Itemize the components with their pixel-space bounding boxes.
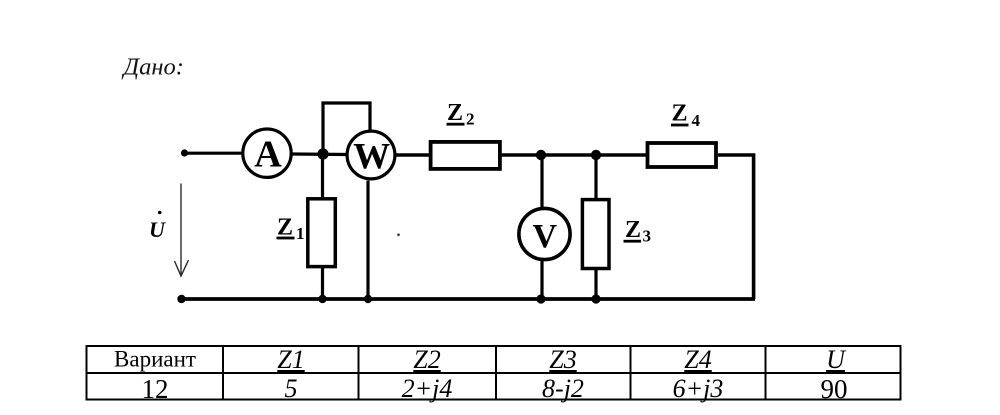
svg-text:Z4: Z4 bbox=[684, 345, 711, 374]
svg-text:12: 12 bbox=[142, 374, 169, 404]
wire: voltmeter to bottom rail bbox=[540, 261, 543, 300]
svg-text:A: A bbox=[254, 133, 282, 175]
node: bottom left terminal bbox=[177, 295, 185, 303]
svg-text:1: 1 bbox=[296, 224, 305, 243]
svg-text:Z3: Z3 bbox=[549, 345, 576, 374]
svg-text:3: 3 bbox=[643, 227, 652, 246]
wire: node to Z3 bbox=[594, 155, 597, 200]
resistor Z3 body bbox=[582, 200, 609, 269]
wire: Z2 to Z4 through nodes bbox=[500, 153, 648, 156]
resistor Z2 body bbox=[431, 142, 500, 169]
svg-text:U: U bbox=[149, 217, 166, 242]
node: bottom of Z1 branch bbox=[318, 295, 326, 303]
wire: node to voltmeter bbox=[540, 155, 543, 208]
svg-text:5: 5 bbox=[285, 374, 298, 403]
resistor Z1 body bbox=[308, 199, 336, 267]
ammeter A1 circle bbox=[243, 129, 291, 177]
label U with dot bbox=[149, 211, 166, 242]
svg-text:2+j4: 2+j4 bbox=[402, 374, 453, 403]
label Z3 bbox=[624, 217, 652, 245]
wattmeter W1 circle bbox=[347, 131, 395, 179]
wire: Z1 to bottom rail bbox=[321, 268, 324, 299]
svg-text:Z: Z bbox=[625, 217, 641, 243]
svg-text:Z1: Z1 bbox=[277, 345, 304, 374]
node: bottom of Z3 branch bbox=[591, 294, 600, 303]
svg-text:Дано:: Дано: bbox=[122, 53, 184, 80]
svg-text:U: U bbox=[826, 345, 847, 374]
svg-text:V: V bbox=[533, 218, 558, 255]
source voltage arrow U bbox=[175, 184, 189, 277]
node: bottom of W branch bbox=[364, 295, 372, 303]
wire: W to Z2 bbox=[395, 153, 432, 156]
node: junction after ammeter bbox=[317, 148, 328, 159]
svg-text:6+j3: 6+j3 bbox=[673, 374, 724, 403]
svg-text:Z: Z bbox=[447, 100, 463, 126]
node: top node at Z3 branch bbox=[591, 150, 601, 160]
svg-text:90: 90 bbox=[821, 374, 848, 404]
svg-text:Вариант: Вариант bbox=[114, 347, 196, 372]
node: top node at voltmeter branch bbox=[536, 150, 546, 160]
node: bottom of V branch bbox=[536, 294, 545, 303]
wire: W current-coil to bottom rail bbox=[366, 181, 369, 299]
wire: Z3 to bottom rail bbox=[594, 270, 597, 300]
table data row bbox=[142, 374, 848, 404]
svg-text:4: 4 bbox=[692, 111, 701, 130]
svg-text:Z: Z bbox=[672, 101, 688, 127]
label Z2 bbox=[447, 100, 475, 128]
wire: left top lead bbox=[184, 152, 243, 155]
wire: node to Z1 bbox=[321, 154, 324, 198]
stray mark bbox=[397, 233, 400, 236]
svg-text:W: W bbox=[353, 136, 390, 177]
data table grid bbox=[86, 345, 902, 401]
svg-text:2: 2 bbox=[466, 109, 475, 128]
wire: A to W through node bbox=[291, 152, 348, 156]
label Z1 bbox=[277, 215, 305, 243]
voltmeter V1 circle bbox=[519, 208, 570, 259]
svg-text:Z2: Z2 bbox=[413, 345, 440, 374]
wire: wattmeter voltage-coil bracket bbox=[323, 103, 370, 152]
svg-text:8-j2: 8-j2 bbox=[542, 374, 584, 403]
resistor Z4 body bbox=[648, 143, 717, 167]
table header row bbox=[114, 345, 847, 374]
wire: Z4 to right corner and down bbox=[718, 155, 754, 299]
wire: bottom rail bbox=[181, 297, 755, 301]
label Z4 bbox=[671, 101, 701, 130]
node: left top terminal bbox=[181, 149, 188, 156]
